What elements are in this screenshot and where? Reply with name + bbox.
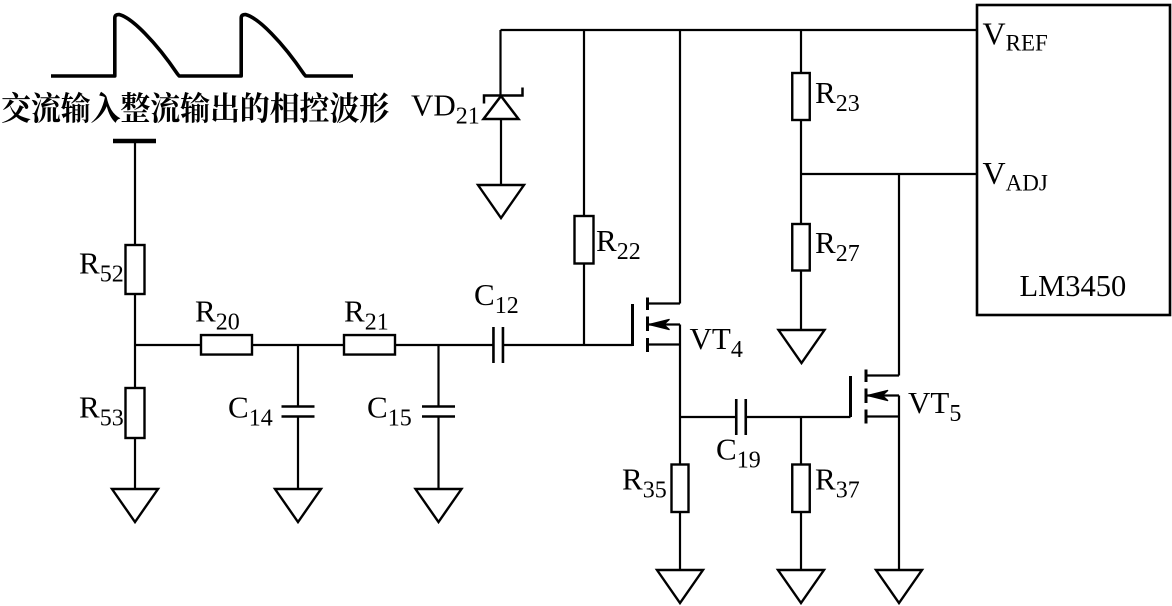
ground (C15) [416, 489, 462, 522]
wire: C14 to ground [297, 417, 299, 489]
capacitor C14 [282, 407, 315, 417]
wire: node to C19 [680, 416, 736, 418]
resistor R22 [575, 216, 594, 264]
wire: tap down to C15 [437, 345, 439, 406]
wire: R53 to ground [134, 438, 136, 489]
MOSFET VT5 [851, 370, 900, 424]
wire: C19 to VT5 gate (R37 tap) [746, 416, 851, 418]
zener diode VD21 [484, 88, 523, 120]
svg-text:R21: R21 [344, 294, 389, 336]
input terminal bar [113, 139, 156, 144]
wire: R37 to ground [800, 512, 802, 570]
resistor R20 [201, 335, 252, 355]
svg-text:C19: C19 [716, 432, 761, 474]
MOSFET VT4 [633, 298, 681, 353]
svg-text:R20: R20 [195, 294, 240, 336]
wire: R27 to ground [800, 271, 802, 331]
svg-text:C15: C15 [367, 390, 412, 432]
svg-text:R35: R35 [622, 462, 667, 504]
wire: tap down to C14 [297, 345, 299, 406]
capacitor C15 [422, 407, 455, 417]
ground (C14) [275, 489, 321, 522]
svg-text:VT4: VT4 [690, 321, 743, 363]
wire: bus down to R23 [800, 31, 802, 73]
wire: bus down to R22 [583, 31, 585, 216]
wire: R20 to R21 (C14 tap) [252, 344, 344, 346]
resistor R27 [792, 224, 810, 271]
wire: R23 to VADJ node [800, 120, 802, 174]
wire: node down to R27 [800, 174, 802, 224]
wire: VT5 source to ground [898, 396, 900, 571]
ground (VD21) [478, 185, 524, 218]
svg-text:R53: R53 [79, 390, 124, 432]
wire: VADJ line to VT5 drain [898, 174, 900, 376]
wire: R21 to C12 (C15 tap) [395, 344, 493, 346]
wire: node down to R35 [679, 417, 681, 465]
wire: R22 to gate line [583, 264, 585, 346]
ground (R37) [778, 570, 824, 603]
wire: top bus VREF [501, 29, 978, 31]
wire: R52 to R53 (node) [134, 294, 136, 388]
wire: VADJ line [801, 173, 976, 175]
ground (VT5) [876, 570, 922, 603]
ground (R35) [657, 570, 703, 603]
ground (R53) [112, 489, 158, 522]
svg-text:VT5: VT5 [908, 385, 961, 427]
wire: R35 to ground [679, 512, 681, 570]
resistor R23 [792, 73, 810, 120]
wire: C12 to VT4 gate (R22 tap) [503, 344, 633, 346]
wire: node to R20 [135, 344, 201, 346]
wire: VT4 source down to node [679, 325, 681, 418]
capacitor C19 [736, 399, 746, 435]
resistor R21 [344, 335, 395, 355]
resistor R35 [672, 465, 689, 513]
resistor R53 [126, 388, 145, 438]
svg-text:R52: R52 [79, 246, 124, 288]
caption: 交流输入整流输出的相控波形 [2, 92, 389, 123]
capacitor C12 [493, 327, 503, 363]
svg-text:LM3450: LM3450 [1020, 269, 1127, 303]
wire: tap down to R37 [800, 417, 802, 465]
svg-text:C12: C12 [474, 277, 519, 319]
IC U1 LM3450 box [977, 5, 1170, 315]
svg-text:VD21: VD21 [411, 88, 480, 130]
svg-text:R22: R22 [596, 223, 641, 265]
resistor R37 [792, 465, 810, 513]
svg-text:R27: R27 [815, 225, 860, 267]
wire: VD21 to ground [500, 119, 502, 185]
wire: terminal to R52 [134, 141, 136, 245]
wire: bus down to VD21 [499, 30, 501, 95]
svg-text:C14: C14 [228, 390, 273, 432]
ground (R27) [779, 330, 825, 363]
svg-text:R23: R23 [815, 75, 860, 117]
wire: C15 to ground [437, 417, 439, 489]
svg-text:R37: R37 [815, 462, 860, 504]
wire: bus to VT4 drain [679, 31, 681, 304]
resistor R52 [126, 245, 145, 294]
waveform: phase-controlled rectified AC [51, 15, 353, 76]
